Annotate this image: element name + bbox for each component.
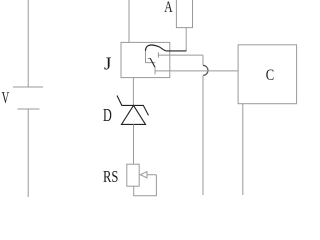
svg-text:D: D: [103, 105, 112, 125]
relay J armature curve: [146, 45, 187, 51]
wire J bottom to zener: [132, 78, 134, 106]
relay contact b wire to C: [155, 70, 238, 72]
zener diode D cathode bar: [117, 96, 149, 116]
wire battery top: [27, 0, 29, 87]
wire battery bottom: [27, 109, 29, 197]
relay contact a wire: [158, 54, 203, 56]
relay J box: [121, 42, 170, 77]
battery V negative plate: [17, 108, 39, 110]
wire crossover hop: [203, 65, 208, 75]
zener diode D triangle: [122, 105, 146, 124]
rheostat wiper arrow: [140, 172, 156, 178]
wire contact a down lower: [202, 75, 204, 195]
battery V positive plate: [13, 86, 43, 88]
svg-text:RS: RS: [103, 167, 118, 186]
controller C box: [238, 45, 297, 104]
wire contact a down: [202, 55, 204, 65]
ammeter A body: [176, 0, 192, 28]
relay J moving contact blade: [150, 58, 155, 67]
rheostat RS body: [127, 164, 139, 186]
wire C bottom: [242, 104, 244, 195]
wire coil feed top: [128, 0, 130, 42]
relay contact b tick: [154, 67, 156, 74]
wire zener to rheostat: [133, 124, 135, 164]
wire wiper loop: [134, 175, 157, 196]
relay J armature stem: [146, 51, 156, 63]
relay J pivot bar: [148, 57, 151, 59]
svg-text:J: J: [104, 53, 111, 73]
svg-text:A: A: [164, 0, 173, 16]
svg-text:V: V: [2, 88, 10, 107]
svg-text:C: C: [266, 67, 274, 84]
wire ammeter to armature node: [185, 28, 187, 51]
relay contact a tick: [157, 52, 159, 58]
